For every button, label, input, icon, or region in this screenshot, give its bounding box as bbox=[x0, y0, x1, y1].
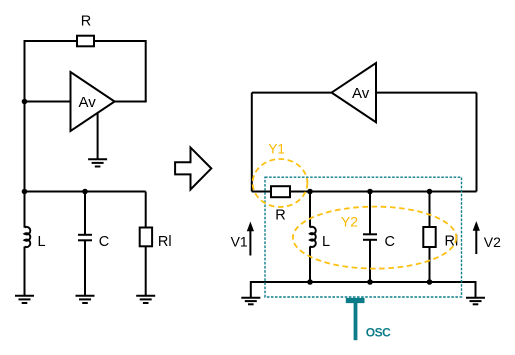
wire: left ground stub (right circuit) bbox=[250, 281, 252, 297]
highlight Y1: orange dashed ellipse around R bbox=[253, 159, 308, 207]
arrow V2 (output voltage) bbox=[473, 221, 480, 254]
wire: left circuit right vertical (R to amp output) bbox=[145, 40, 147, 102]
op-amp Av (right circuit, pointing left) bbox=[332, 63, 376, 122]
node: junction L top (right circuit) bbox=[307, 189, 313, 195]
node: junction Rl bottom (right circuit) bbox=[427, 279, 433, 285]
wire: resistor Rl top lead (left circuit) bbox=[145, 192, 147, 228]
inductor L (left circuit) bbox=[25, 227, 31, 247]
wire: right circuit amp input (apex side) bbox=[252, 92, 332, 94]
svg-text:Rl: Rl bbox=[158, 234, 172, 250]
wire: right ground stub (right circuit) bbox=[475, 281, 477, 297]
inductor L (right circuit) bbox=[310, 227, 316, 247]
resistor Rl (right circuit) bbox=[423, 227, 435, 247]
wire: right circuit top rail (R to tank) bbox=[290, 191, 430, 193]
svg-text:V2: V2 bbox=[484, 234, 501, 250]
svg-text:C: C bbox=[385, 234, 395, 250]
svg-text:L: L bbox=[38, 234, 46, 250]
ground: left ground (right circuit) bbox=[241, 298, 260, 305]
wire: resistor Rl bottom lead (left circuit) bbox=[145, 246, 147, 296]
wire: right circuit top rail right connector bbox=[430, 191, 477, 193]
wire: left circuit left vertical rail bbox=[24, 40, 26, 228]
svg-text:L: L bbox=[322, 234, 330, 250]
node: junction L bottom (right circuit) bbox=[307, 279, 313, 285]
node: junction capacitor C top (left circuit) bbox=[82, 189, 88, 195]
wire: left circuit top feedback rail (right segment) bbox=[94, 40, 146, 42]
wire: resistor Rl bottom lead (right circuit) bbox=[429, 247, 431, 282]
wire: capacitor C bottom lead (left circuit) bbox=[84, 240, 86, 296]
svg-text:Y2: Y2 bbox=[341, 213, 358, 229]
OSC probe: teal bar bbox=[346, 298, 365, 303]
highlight Y2: orange dashed ellipse around L C Rl tank bbox=[293, 207, 456, 269]
resistor R (left circuit feedback) bbox=[77, 36, 94, 47]
svg-text:Y1: Y1 bbox=[268, 142, 285, 157]
ground: below Rl (left circuit) bbox=[136, 296, 155, 303]
node: junction Rl top (right circuit) bbox=[427, 189, 433, 195]
svg-text:C: C bbox=[99, 234, 109, 250]
wire: right circuit left vertical bbox=[251, 93, 253, 192]
block arrow: transformation indicator bbox=[175, 148, 211, 190]
resistor Rl (left circuit load) bbox=[140, 228, 152, 247]
op-amp Av (left circuit) bbox=[71, 72, 115, 131]
wire: capacitor C bottom lead (right circuit) bbox=[369, 240, 371, 282]
resistor R (right circuit, series) bbox=[271, 186, 290, 197]
wire: left circuit lower horizontal rail bbox=[25, 191, 146, 193]
wire: capacitor C top lead (left circuit) bbox=[84, 192, 86, 235]
svg-text:OSC: OSC bbox=[366, 326, 391, 340]
wire: right circuit top rail left segment into R bbox=[252, 191, 271, 193]
wire: amp Av input from left rail bbox=[25, 101, 71, 103]
wire: inductor L top lead (right circuit) bbox=[309, 192, 311, 228]
arrow V1 (input voltage) bbox=[247, 222, 254, 256]
svg-text:R: R bbox=[81, 14, 91, 30]
node: junction left rail / lower rail bbox=[22, 189, 28, 195]
wire: right circuit right vertical bbox=[476, 93, 478, 192]
svg-text:Av: Av bbox=[352, 85, 370, 102]
ground: below L (left circuit) bbox=[15, 296, 34, 303]
wire: right circuit bottom rail bbox=[251, 281, 476, 283]
node: junction C bottom (right circuit) bbox=[367, 279, 373, 285]
OSC probe: teal stem bbox=[354, 303, 358, 340]
wire: resistor Rl top lead (right circuit) bbox=[429, 192, 431, 228]
node: junction C top (right circuit) bbox=[367, 189, 373, 195]
ground: amp Av ground symbol bbox=[88, 159, 107, 166]
wire: right circuit amp right-side horizontal bbox=[376, 92, 477, 94]
ground: right ground (right circuit) bbox=[466, 298, 485, 305]
ground: below C (left circuit) bbox=[76, 296, 95, 303]
wire: capacitor C top lead (right circuit) bbox=[369, 192, 371, 235]
wire: left circuit top feedback rail (left segment) bbox=[25, 40, 78, 42]
wire: inductor L bottom lead bbox=[24, 247, 26, 297]
capacitor C (right circuit) bbox=[363, 234, 377, 240]
svg-text:V1: V1 bbox=[231, 233, 248, 249]
capacitor C (left circuit) bbox=[78, 235, 92, 241]
node: junction at amp input on left rail bbox=[22, 99, 28, 105]
wire: amp Av output to right vertical bbox=[115, 101, 147, 103]
wire: inductor L bottom lead (right circuit) bbox=[309, 246, 311, 282]
wire: amp Av ground stem bbox=[97, 113, 99, 159]
boundary box: teal dashed two-port network boundary bbox=[265, 177, 462, 297]
svg-text:R: R bbox=[275, 208, 285, 224]
svg-text:Av: Av bbox=[79, 94, 97, 111]
